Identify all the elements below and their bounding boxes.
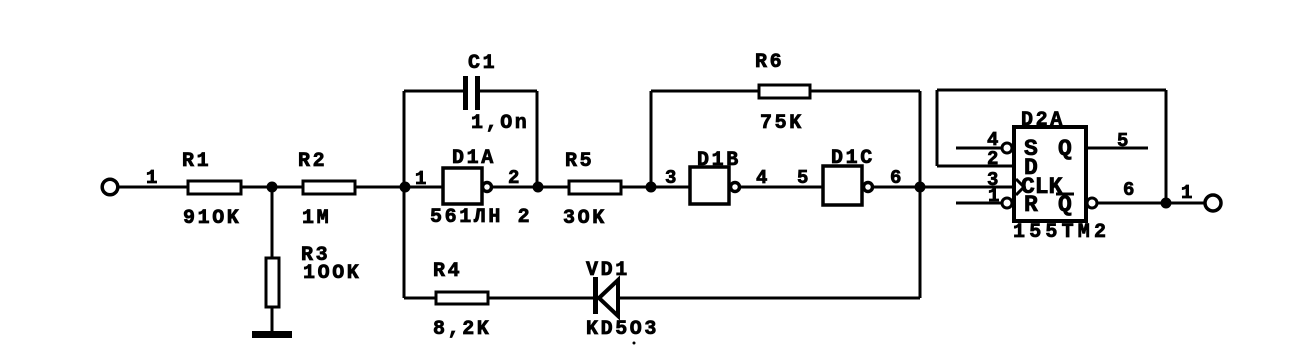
svg-text:5: 5 [797,167,808,189]
svg-text:8,2K: 8,2K [433,318,491,341]
svg-text:5: 5 [1117,130,1128,152]
svg-text:1: 1 [1181,182,1192,204]
svg-text:3OK: 3OK [563,207,607,230]
svg-text:R4: R4 [433,260,462,283]
svg-text:1: 1 [415,168,426,190]
svg-text:R1: R1 [182,150,211,173]
svg-text:6: 6 [1123,179,1134,201]
svg-text:561ЛН 2: 561ЛН 2 [430,206,532,229]
svg-text:155TM2: 155TM2 [1013,221,1110,244]
svg-text:75K: 75K [760,112,804,135]
svg-text:VD1: VD1 [586,259,630,282]
svg-text:3: 3 [665,167,676,189]
svg-text:1OOK: 1OOK [303,262,361,285]
svg-text:91OK: 91OK [183,207,241,230]
svg-text:D1A: D1A [452,147,496,170]
svg-text:R: R [1024,192,1038,218]
svg-text:R6: R6 [755,51,784,74]
svg-text:D1C: D1C [831,147,875,170]
svg-text:D2A: D2A [1021,109,1065,132]
svg-text:KD5O3: KD5O3 [586,318,659,341]
svg-text:4: 4 [756,167,767,189]
svg-text:Q: Q [1058,136,1072,162]
svg-text:R5: R5 [565,150,594,173]
svg-text:R2: R2 [298,150,327,173]
svg-text:1: 1 [988,185,999,207]
svg-text:1M: 1M [302,207,331,230]
svg-text:C1: C1 [468,52,497,75]
svg-text:D1B: D1B [697,149,741,172]
svg-text:Q: Q [1058,192,1072,218]
svg-text:1: 1 [146,167,157,189]
svg-text:1,On: 1,On [471,112,529,135]
svg-text:6: 6 [890,167,901,189]
svg-text:2: 2 [987,148,998,170]
svg-text:2: 2 [508,167,519,189]
